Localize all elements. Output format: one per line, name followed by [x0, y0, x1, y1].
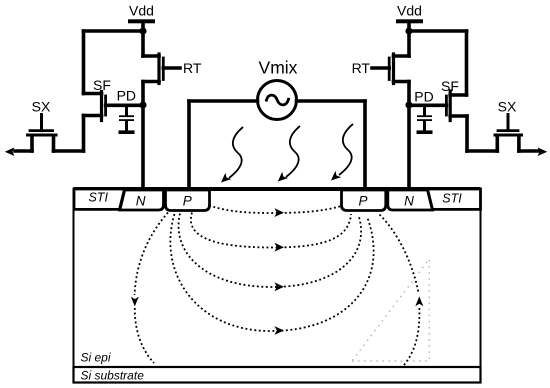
svg-text:Vdd: Vdd [397, 3, 422, 19]
wire: Vmix left [189, 99, 258, 103]
wire: RT source down to PD node [141, 82, 145, 192]
wire: SF source down [82, 116, 86, 152]
node: PD junction dot (left) [139, 101, 146, 108]
transistor SX (right) [495, 115, 538, 152]
field line arc 4 [170, 214, 373, 331]
wire: RT source down to PD node (right) [407, 82, 411, 192]
svg-text:STI: STI [442, 192, 462, 206]
svg-text:PD: PD [117, 88, 136, 104]
field line outer left [135, 213, 168, 364]
svg-text:Si epi: Si epi [81, 351, 111, 365]
node: Vdd junction dot (right) [405, 27, 412, 34]
Vdd supply bar (right) [396, 19, 423, 23]
wire: junction right to SF drain branch [409, 29, 467, 33]
wire: Vmix right [297, 99, 366, 103]
photon arrow 2 [278, 126, 300, 182]
svg-text:SX: SX [498, 99, 517, 115]
photon arrow 1 [221, 127, 243, 183]
transistor SF (right) [409, 91, 467, 121]
node: PD junction dot (right) [405, 101, 412, 108]
svg-text:Si substrate: Si substrate [81, 369, 145, 383]
svg-text:P: P [358, 194, 367, 209]
N region left [120, 190, 164, 210]
gray guide triangle [352, 259, 429, 361]
P region left [166, 190, 210, 211]
source Vmix [258, 81, 297, 120]
svg-text:N: N [136, 194, 146, 209]
capacitor PD (left) [119, 105, 135, 132]
transistor RT (left) [143, 54, 180, 84]
svg-text:P: P [183, 194, 192, 209]
svg-text:SX: SX [32, 99, 51, 115]
field line arc 2 [191, 213, 351, 248]
svg-text:RT: RT [183, 60, 202, 76]
wire: SF source down (right) [465, 116, 469, 151]
N region right [388, 190, 433, 210]
wire: SF source to SX (right) [467, 149, 497, 153]
Vdd supply bar (left) [128, 19, 155, 23]
svg-text:PD: PD [414, 89, 433, 105]
wire: SF drain branch vertical (right) [465, 31, 469, 95]
wire: Vmix right leg down to P [363, 101, 367, 191]
Si substrate box [74, 367, 481, 383]
STI region right [428, 189, 481, 209]
photon arrow 3 [331, 124, 353, 181]
svg-text:SF: SF [93, 77, 111, 93]
field line arc 3 [179, 214, 362, 288]
wire: SF source to SX drain [54, 149, 84, 153]
transistor SF (left) [84, 92, 144, 121]
svg-text:STI: STI [88, 191, 108, 205]
P region right [342, 190, 386, 211]
STI region left [74, 189, 125, 209]
device top surface line [74, 187, 481, 191]
output arrow (left) [5, 147, 15, 156]
wire: junction left to SF drain branch [84, 29, 144, 33]
capacitor PD (right) [417, 105, 433, 132]
field line outer right [380, 215, 420, 366]
svg-text:SF: SF [441, 78, 459, 94]
wire: Vdd bar down to junction (right) [407, 23, 411, 56]
wire: SF drain branch vertical [82, 31, 86, 94]
transistor SX (left) [15, 115, 56, 152]
wire: Vdd bar down to junction (left) [141, 23, 145, 56]
wire: into SF drain (right) [450, 93, 466, 97]
svg-text:Vmix: Vmix [259, 58, 298, 78]
output arrow (right) [538, 147, 548, 156]
Si epi box [74, 189, 481, 367]
wire: into SF drain [84, 92, 102, 96]
wire: Vmix left leg down to P [187, 101, 191, 191]
svg-text:N: N [404, 194, 414, 209]
node: Vdd junction dot (left) [139, 27, 146, 34]
svg-text:RT: RT [352, 60, 371, 76]
svg-text:Vdd: Vdd [129, 3, 154, 19]
transistor RT (right) [372, 54, 409, 84]
field line arc 1 [209, 206, 343, 214]
